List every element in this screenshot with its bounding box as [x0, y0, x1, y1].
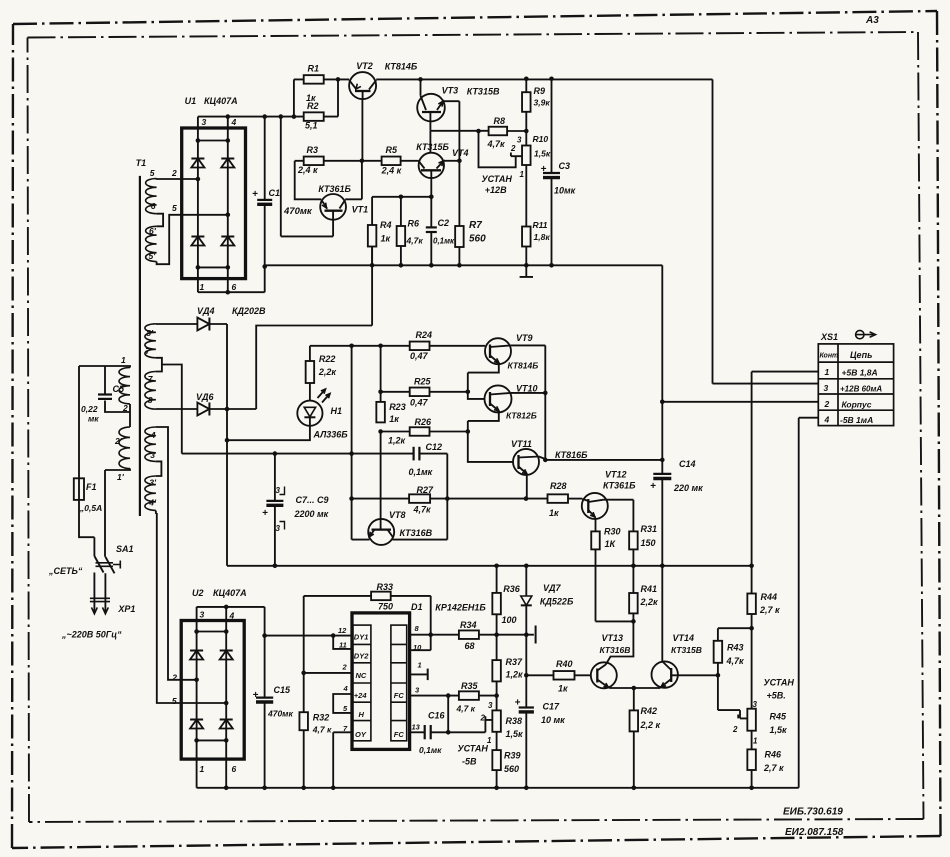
diode VD4 KD202V: [156, 323, 198, 325]
svg-text:2: 2: [510, 144, 516, 153]
VT3 base lead down and R8 line: [430, 112, 488, 131]
svg-text:R22: R22: [319, 354, 336, 364]
resistor R25 0.47: [381, 391, 410, 393]
svg-text:С16: С16: [428, 711, 446, 721]
svg-text:6': 6': [149, 226, 157, 236]
svg-text:VТ2: VТ2: [356, 61, 373, 71]
wire 6 to 6' jog: [157, 214, 164, 227]
svg-text:1К: 1К: [605, 539, 617, 549]
svg-text:0,1мк: 0,1мк: [433, 237, 455, 246]
svg-text:1: 1: [200, 282, 205, 292]
svg-text:6: 6: [151, 201, 156, 211]
resistor R26: [381, 431, 410, 433]
resistor R36 100: [492, 593, 501, 614]
svg-text:0,1мк: 0,1мк: [419, 745, 442, 755]
svg-text:R44: R44: [761, 592, 778, 602]
transistor VT10 KT812B: [485, 385, 512, 412]
resistor R39 560: [492, 750, 501, 770]
resistor R22: [309, 346, 311, 361]
svg-text:R39: R39: [504, 751, 521, 761]
R10 wiper arm: [511, 153, 522, 157]
svg-text:УСТАН: УСТАН: [482, 174, 513, 184]
U2 internal right branch: [225, 621, 227, 760]
VT12 collector to R31: [604, 500, 634, 532]
wire T1 pin4 to U2 input 2: [156, 427, 197, 680]
svg-text:С17: С17: [543, 702, 561, 712]
svg-text:R9: R9: [534, 86, 546, 96]
VD6 output wire to riser: [210, 408, 257, 410]
U2 input node 2: [194, 678, 199, 683]
T1 winding 6'-5' (upper secondary, coil 2): [146, 226, 157, 261]
svg-text:ЕИБ.730.619: ЕИБ.730.619: [783, 807, 843, 818]
transformer T1 core: [139, 176, 141, 516]
R27 / VT8 feedback line y498.6: [352, 498, 548, 500]
svg-text:13: 13: [412, 723, 421, 732]
svg-text:7': 7': [145, 346, 153, 356]
svg-text:3: 3: [517, 136, 522, 145]
svg-text:+: +: [541, 164, 547, 175]
svg-text:3: 3: [824, 383, 829, 393]
svg-text:АЛ336Б: АЛ336Б: [313, 430, 349, 440]
wire R2 right to R1 line: [337, 79, 339, 116]
svg-text:R38: R38: [506, 716, 523, 726]
svg-text:-5В: -5В: [462, 757, 477, 767]
VT1 emitter hook from R3 left: [295, 161, 322, 200]
U1 input node 5: [226, 213, 231, 218]
resistor R41 2.2k: [632, 566, 634, 593]
H1 cathode return wire: [227, 426, 310, 440]
svg-text:КТ361Б: КТ361Б: [318, 184, 351, 194]
chassis ground symbol: [520, 265, 533, 277]
svg-text:С7... С9: С7... С9: [296, 495, 329, 505]
U1 bottom output wire: [198, 267, 265, 293]
svg-text:„~220В 50Гц“: „~220В 50Гц“: [61, 630, 122, 640]
D1 pin 7 wire to rail: [333, 732, 352, 788]
left mains wire with fuse F1: [79, 366, 94, 556]
U2 bottom risers to rail: [197, 759, 227, 788]
VT11 collector output line +5V: [539, 457, 663, 460]
svg-text:КТ316В: КТ316В: [400, 528, 433, 538]
U1 internal right branch: [227, 128, 229, 279]
svg-text:1к: 1к: [306, 93, 316, 103]
svg-text:3: 3: [276, 524, 281, 533]
svg-text:-5В 1мА: -5В 1мА: [840, 415, 873, 425]
XS1 plug symbol: [856, 330, 864, 338]
D1 pin 8 wire / resistor R34: [410, 634, 459, 636]
U1 internal bottom bus: [198, 266, 228, 268]
resistor R42 2.2k: [633, 688, 635, 710]
resistor R7: [455, 226, 464, 247]
U1 internal top bus: [198, 140, 228, 142]
VT9 collector wire: [511, 345, 546, 460]
svg-text:1,5к: 1,5к: [506, 729, 524, 739]
U2 diode top-left: [190, 650, 203, 652]
svg-text:1,2к: 1,2к: [506, 670, 524, 680]
svg-text:D1: D1: [411, 602, 423, 612]
svg-text:1': 1': [117, 472, 125, 482]
svg-text:УСТАН: УСТАН: [764, 678, 795, 688]
R36-R39 column: [496, 566, 498, 593]
transistor VT11 KT816B: [513, 449, 539, 475]
svg-text:3: 3: [150, 450, 155, 460]
C12 to R27 right leg: [446, 454, 448, 540]
R28 resistor: [548, 494, 569, 503]
resistor R2: [304, 112, 324, 121]
node line A y345.8 (+5V raw): [310, 345, 485, 347]
svg-text:220 мк: 220 мк: [673, 483, 703, 493]
svg-text:1,5к: 1,5к: [534, 149, 551, 159]
capacitors C7...C9 2200uF: [274, 454, 276, 501]
svg-text:0,22: 0,22: [81, 404, 98, 414]
svg-text:1: 1: [200, 764, 205, 774]
svg-text:КТ315В: КТ315В: [671, 645, 702, 655]
resistor R37 1.2k: [492, 660, 501, 681]
transistor VT8 KT316V (error amp): [368, 519, 394, 545]
R43 branch: [718, 628, 752, 641]
capacitor C17 10uF: [519, 706, 534, 708]
T1 winding 5-6 (upper secondary, coil 1): [146, 179, 157, 214]
svg-text:3,9к: 3,9к: [534, 98, 551, 108]
svg-text:8: 8: [148, 395, 153, 405]
svg-text:+: +: [252, 189, 258, 200]
top section ground rail y265.3: [265, 265, 663, 266]
common rail y453.6: [182, 453, 414, 455]
svg-text:R23: R23: [389, 402, 406, 412]
capacitor C15 470uF: [262, 633, 267, 638]
svg-text:R31: R31: [641, 524, 658, 534]
svg-text:4,7 к: 4,7 к: [456, 704, 476, 714]
svg-text:10 мк: 10 мк: [541, 715, 565, 725]
T1 winding 8'-7' (middle secondary coil 1): [145, 324, 156, 358]
svg-text:4,7к: 4,7к: [487, 139, 506, 149]
svg-text:12: 12: [338, 626, 347, 635]
svg-text:ОY: ОY: [355, 730, 367, 739]
C16 branch to R35 line: [447, 696, 449, 733]
svg-text:+: +: [515, 698, 521, 709]
svg-text:2: 2: [342, 663, 348, 672]
VT3 collector to +rail: [420, 79, 422, 95]
VT10 emitter dogleg to VT11 base: [468, 412, 513, 462]
svg-text:КТ315Б: КТ315Б: [416, 142, 449, 152]
svg-text:КД522Б: КД522Б: [540, 597, 574, 607]
svg-text:2: 2: [732, 725, 738, 734]
svg-text:R5: R5: [386, 145, 398, 155]
transistor VT13 KT316V: [591, 662, 617, 688]
svg-text:VД7: VД7: [543, 583, 562, 593]
U2 internal left branch: [196, 621, 198, 760]
svg-text:R1: R1: [308, 64, 320, 74]
svg-text:4,7к: 4,7к: [413, 505, 432, 515]
svg-text:3: 3: [202, 117, 207, 127]
svg-text:1к: 1к: [549, 508, 559, 518]
svg-text:5: 5: [172, 696, 177, 706]
svg-text:470мк: 470мк: [283, 206, 313, 217]
wire C5 tap to primary pin 2: [105, 401, 130, 413]
svg-text:8': 8': [146, 328, 154, 338]
svg-text:VТ13: VТ13: [602, 633, 624, 643]
svg-text:С12: С12: [426, 442, 443, 452]
svg-text:R25: R25: [414, 377, 432, 387]
svg-text:4: 4: [150, 430, 156, 440]
svg-text:ХР1: ХР1: [117, 604, 135, 614]
svg-text:VТ11: VТ11: [511, 439, 532, 449]
U2 internal top bus: [197, 631, 227, 633]
svg-text:КТ814Б: КТ814Б: [385, 62, 418, 72]
svg-text:560: 560: [504, 764, 519, 774]
svg-text:R3: R3: [307, 145, 319, 155]
svg-text:КТ812Б: КТ812Б: [506, 411, 537, 421]
resistor R5: [382, 157, 401, 166]
D1 right cell column: [391, 625, 407, 741]
T1 primary winding 2'-1': [119, 427, 130, 469]
resistor R24 0.47: [410, 342, 430, 351]
svg-text:„СЕТЬ“: „СЕТЬ“: [48, 566, 83, 576]
svg-text:R37: R37: [506, 657, 524, 667]
D1 pins 4-5 tie bracket: [333, 694, 352, 713]
svg-text:ЕИ2.087.158: ЕИ2.087.158: [785, 827, 844, 838]
svg-text:1: 1: [520, 170, 525, 179]
svg-text:68: 68: [465, 641, 475, 651]
svg-text:U2: U2: [192, 588, 204, 598]
svg-text:VТ8: VТ8: [389, 510, 406, 520]
VT4 base-emitter network line y196.8: [372, 178, 431, 227]
svg-text:УСТАН: УСТАН: [458, 744, 489, 754]
svg-text:2: 2: [824, 399, 830, 409]
capacitor C12: [413, 447, 415, 461]
svg-text:R27: R27: [417, 485, 435, 495]
svg-text:2,7 к: 2,7 к: [759, 605, 780, 615]
transistor VT3 KT315V: [417, 94, 445, 122]
svg-text:КТ814Б: КТ814Б: [508, 361, 539, 371]
svg-text:VТ4: VТ4: [452, 148, 469, 158]
svg-text:R6: R6: [408, 219, 420, 229]
voltage regulator D1 KR142EN1B box: [352, 613, 410, 750]
diode VD7 KD522B: [525, 566, 527, 596]
svg-text:Конт: Конт: [820, 353, 839, 360]
svg-text:150: 150: [641, 538, 656, 548]
main +12V rail from VT2 to XS1 pin3 riser: [376, 79, 818, 383]
svg-text:2,2к: 2,2к: [318, 367, 337, 377]
svg-text:R34: R34: [460, 620, 477, 630]
svg-text:С5: С5: [113, 384, 125, 394]
resistor R4: [371, 197, 373, 225]
wires SA1 to plug XP1: [94, 573, 105, 607]
svg-text:КР142ЕН1Б: КР142ЕН1Б: [435, 603, 486, 613]
resistor R3: [304, 157, 324, 166]
svg-text:4: 4: [343, 684, 349, 693]
resistor R32: [299, 712, 308, 730]
svg-text:4: 4: [229, 611, 235, 621]
T1 primary winding 1-2: [119, 368, 130, 404]
svg-text:1к: 1к: [381, 234, 391, 244]
R40 line / resistor R40 1k: [526, 674, 553, 676]
svg-text:5: 5: [172, 203, 177, 213]
primary spine 2-2': [129, 404, 131, 427]
VT9 emitter dogleg to VT10 base: [468, 364, 499, 399]
bridge rectifier U2 KTs407A box: [181, 621, 244, 760]
svg-text:VТ1: VТ1: [352, 205, 369, 215]
wire T1 pin5' to U1 input 5: [157, 215, 228, 264]
wire R5 to VT4 base: [401, 160, 419, 162]
svg-text:R10: R10: [533, 134, 549, 144]
svg-text:VД6: VД6: [196, 392, 215, 402]
svg-text:А3: А3: [865, 15, 879, 26]
VT14 transistor KT315V: [652, 661, 678, 687]
U2 diode top-right: [220, 650, 233, 652]
svg-text:R41: R41: [641, 584, 658, 594]
T1 winding 7-8 (middle secondary coil 2): [145, 372, 156, 410]
D1 pin 1 stub with bar: [410, 673, 428, 675]
transistor VT9 KT814B (pass, +5V): [485, 338, 511, 364]
svg-text:0,47: 0,47: [410, 351, 429, 361]
svg-text:+12В 60мА: +12В 60мА: [840, 385, 882, 394]
potentiometer R38 (UStAN -5V): [492, 710, 501, 731]
svg-text:4,7 к: 4,7 к: [312, 725, 332, 735]
transistor VT2 KT814B (series pass): [349, 72, 376, 99]
svg-text:DY2: DY2: [354, 652, 369, 661]
T1 winding 3'-4' (lower secondary coil 2): [145, 476, 156, 510]
svg-text:ХS1: ХS1: [820, 332, 838, 342]
svg-text:R46: R46: [765, 750, 783, 760]
svg-text:2,4 к: 2,4 к: [381, 166, 402, 176]
svg-text:6: 6: [232, 764, 237, 774]
wire R8 right to R9/R10 column: [507, 130, 526, 132]
wire center tap 7'-7 to common rail: [162, 365, 182, 454]
LED H1 AL336B: [309, 383, 311, 401]
svg-text:4: 4: [231, 117, 237, 127]
svg-text:U1: U1: [185, 96, 197, 106]
svg-text:Н1: Н1: [331, 406, 343, 416]
capacitor C2: [426, 226, 437, 228]
diode VD6: [156, 408, 198, 410]
svg-text:Цепь: Цепь: [850, 350, 872, 360]
svg-text:„0,5А: „0,5А: [79, 503, 102, 513]
svg-text:470мк: 470мк: [267, 709, 293, 719]
R45 wiper arm: [738, 715, 747, 719]
svg-text:3: 3: [488, 701, 493, 710]
R3 line wires: [295, 160, 382, 162]
svg-text:КТ816Б: КТ816Б: [555, 450, 588, 460]
svg-text:Корпус: Корпус: [842, 400, 872, 410]
svg-text:С14: С14: [679, 459, 696, 469]
svg-text:R33: R33: [377, 582, 394, 592]
VT8 emitter/collector bottom wires: [352, 539, 448, 541]
svg-text:100: 100: [502, 615, 517, 625]
D1 left cell column: [353, 625, 371, 741]
svg-text:R35: R35: [461, 681, 479, 691]
svg-text:FС: FС: [394, 691, 405, 700]
transistor VT1 KT361B (protection): [320, 194, 346, 220]
svg-text:1: 1: [418, 661, 422, 670]
wire primary bottom 1' to switch: [105, 469, 130, 557]
svg-text:SА1: SА1: [116, 544, 134, 554]
svg-text:2: 2: [480, 714, 486, 723]
svg-text:+24: +24: [354, 691, 368, 700]
connector XS1 table: [818, 344, 893, 426]
svg-text:мк: мк: [88, 414, 99, 424]
svg-text:4: 4: [824, 415, 830, 425]
VT12 emitter to R30: [595, 518, 597, 531]
U1 diode top-right: [221, 158, 234, 160]
VD4 cathode drop wire: [210, 324, 228, 566]
svg-text:5,1: 5,1: [305, 121, 318, 131]
VT4 collector riser: [429, 131, 431, 153]
resistor R23 column: [380, 346, 382, 402]
rectified riser to R4 leg: [256, 247, 372, 410]
svg-text:VД4: VД4: [197, 306, 215, 316]
svg-text:+5В.: +5В.: [767, 691, 786, 701]
wire primary top to C5/F1 node: [79, 366, 130, 368]
svg-text:КТ315В: КТ315В: [467, 87, 500, 97]
fuse F1: [74, 478, 84, 500]
svg-text:2': 2': [114, 436, 123, 446]
wire VT2 base down to R3 line: [361, 99, 363, 161]
left leg line A to VT8 emitter: [351, 346, 353, 540]
svg-text:Т1: Т1: [136, 158, 147, 168]
wiper wire to R38: [485, 716, 492, 732]
VT11 emitter down to R28 line: [526, 475, 528, 499]
VT3 emitter to R7 node: [443, 101, 459, 161]
switch SA1: [94, 556, 103, 573]
wire R1 right to VT2: [323, 78, 349, 80]
VT1 collector hook to R3/VT2 node: [345, 161, 362, 200]
capacitor C3 (10uF): [551, 79, 553, 173]
svg-text:R43: R43: [727, 643, 744, 653]
svg-text:1,2к: 1,2к: [388, 436, 406, 446]
H1 emission arrows: [318, 389, 326, 398]
capacitor C16: [410, 731, 425, 733]
plug XP1 arrows: [92, 607, 98, 613]
svg-text:1,5к: 1,5к: [770, 725, 788, 735]
raw +V line y116.6: [198, 116, 338, 118]
svg-text:3': 3': [149, 478, 157, 488]
svg-text:+: +: [253, 690, 259, 701]
svg-text:2,2 к: 2,2 к: [640, 720, 661, 730]
R33 left leg / R32 column: [303, 596, 305, 712]
svg-text:R45: R45: [770, 712, 788, 722]
svg-text:3: 3: [753, 700, 758, 709]
svg-text:0,1мк: 0,1мк: [409, 467, 433, 477]
svg-text:КТ316В: КТ316В: [600, 645, 631, 655]
resistor R6: [400, 197, 402, 226]
svg-text:R4: R4: [380, 220, 392, 230]
capacitor C5: [104, 366, 106, 395]
U2 internal bottom bus: [197, 739, 227, 741]
svg-text:2,4 к: 2,4 к: [297, 165, 318, 175]
svg-text:2,7 к: 2,7 к: [763, 763, 784, 773]
U2 output top wire: [197, 607, 265, 636]
wire U2 output to D1 pins 12/11: [265, 635, 352, 637]
U1 internal left branch: [197, 128, 199, 279]
svg-text:С1: С1: [269, 188, 281, 198]
svg-text:R28: R28: [550, 481, 567, 491]
svg-text:4': 4': [148, 498, 157, 508]
case-connection bar after R34: [535, 626, 537, 644]
resistor R44 2.7k: [747, 594, 756, 615]
svg-text:R40: R40: [556, 659, 573, 669]
svg-text:R42: R42: [641, 706, 658, 716]
svg-text:1,8к: 1,8к: [534, 232, 551, 242]
wire XS1 pin 4 (-5V): [799, 418, 819, 788]
U1 input node 2: [196, 177, 201, 182]
bridge rectifier U1 KTs407A box: [182, 128, 246, 279]
svg-text:1: 1: [121, 355, 126, 365]
svg-text:+12В: +12В: [485, 185, 507, 195]
resistor R27: [409, 494, 430, 503]
svg-text:R26: R26: [415, 417, 433, 427]
D1 pin 2 NC wire: [304, 672, 352, 674]
U2 diode bottom-left: [190, 719, 203, 721]
